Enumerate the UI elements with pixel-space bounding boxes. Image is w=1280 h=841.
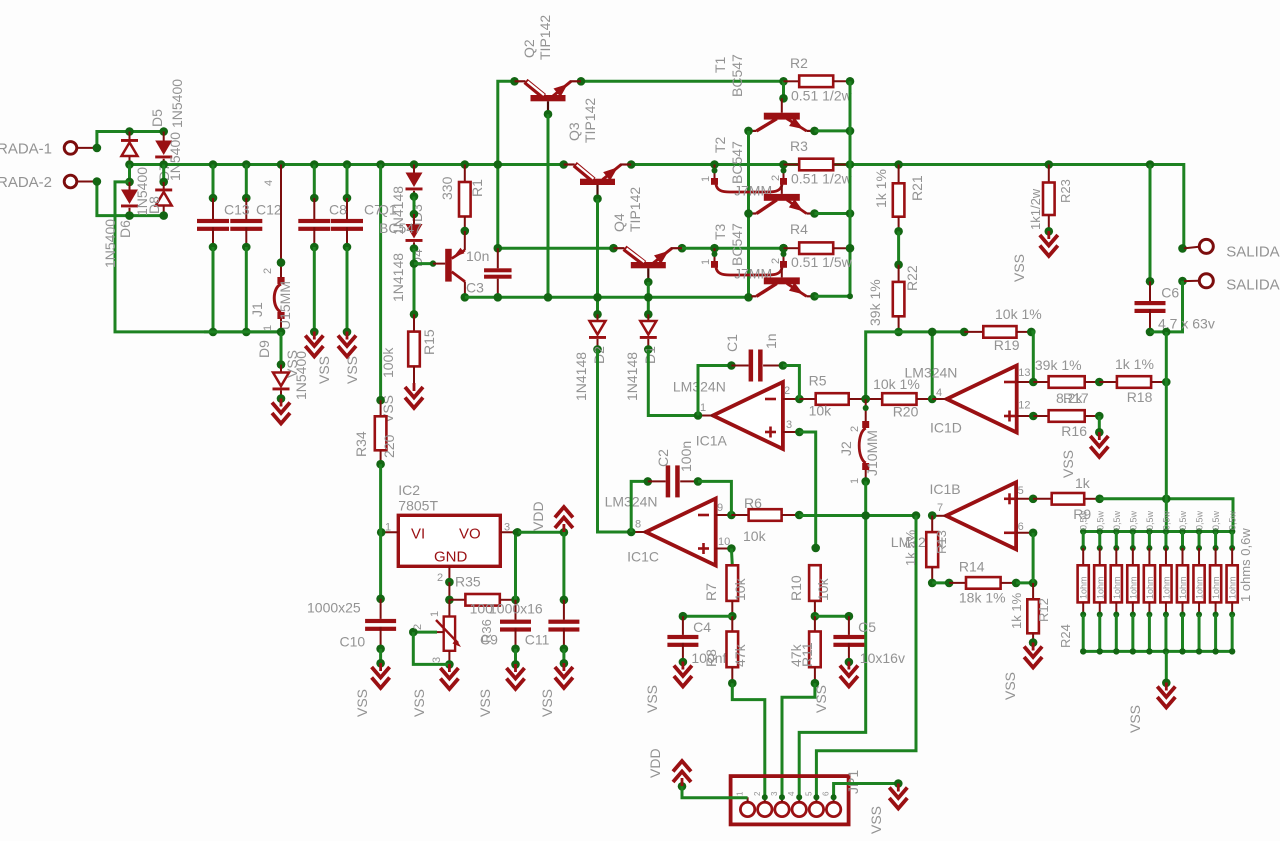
diode D6 1N5400 <box>102 182 138 268</box>
svg-text:R11: R11 <box>799 642 815 667</box>
svg-text:R13: R13 <box>934 530 949 554</box>
svg-text:VSS: VSS <box>477 689 493 717</box>
svg-text:R23: R23 <box>1058 179 1073 203</box>
svg-text:1ohm: 1ohm <box>1145 576 1155 599</box>
svg-text:R22: R22 <box>904 265 920 291</box>
wire R16 to VSS <box>1095 416 1104 437</box>
svg-text:C13: C13 <box>224 202 250 218</box>
svg-text:1N4148: 1N4148 <box>573 352 589 401</box>
capacitor C2 100n <box>631 441 731 532</box>
label C8 C7 <box>329 202 382 218</box>
wire D6 top rail to VSS bus <box>115 182 281 332</box>
svg-text:C4: C4 <box>693 619 711 635</box>
connector ENTRADA-2 <box>0 174 94 191</box>
svg-text:IC2: IC2 <box>398 482 420 498</box>
svg-text:VI: VI <box>411 526 425 543</box>
svg-text:1: 1 <box>700 259 712 265</box>
svg-text:9: 9 <box>717 502 723 514</box>
svg-text:Q2: Q2 <box>521 39 537 58</box>
svg-text:10x16v: 10x16v <box>860 650 905 666</box>
svg-text:C3: C3 <box>466 280 484 296</box>
svg-text:VSS: VSS <box>344 356 360 384</box>
svg-text:VSS: VSS <box>411 689 427 717</box>
svg-text:T3: T3 <box>712 223 728 240</box>
wire R6 output row <box>799 514 916 517</box>
svg-text:GND: GND <box>434 549 468 566</box>
svg-text:R35: R35 <box>455 573 481 589</box>
svg-text:JP1: JP1 <box>845 770 861 794</box>
wire IC1B output down to JP1 pin5 <box>816 516 916 798</box>
resistor R2 0.51 <box>784 55 855 104</box>
svg-text:IC1C: IC1C <box>627 548 659 564</box>
wire VSS bottom bus <box>204 330 281 333</box>
svg-text:0.51 1/2w: 0.51 1/2w <box>791 171 853 187</box>
svg-text:R12: R12 <box>1036 598 1051 622</box>
svg-text:ENTRADA-2: ENTRADA-2 <box>0 174 52 191</box>
wire Q4 emitter row <box>682 247 784 250</box>
svg-text:R10: R10 <box>788 575 804 601</box>
junction <box>744 127 819 136</box>
resistor R18 1k 1% <box>1099 356 1170 405</box>
capacitor C11 1000x16 <box>489 532 579 667</box>
ground VSS under C7 <box>338 332 360 385</box>
transistor T3 BC547 <box>712 223 815 296</box>
svg-text:5: 5 <box>804 791 813 796</box>
capacitor C5 10x16v <box>815 612 905 666</box>
diode D4 1N4148 <box>390 214 425 302</box>
svg-text:C12: C12 <box>256 202 282 218</box>
svg-text:1ohm: 1ohm <box>1178 576 1188 599</box>
ground VSS under R23 <box>1011 231 1058 282</box>
diode D9 1N5400 <box>256 332 309 403</box>
wire base drive line <box>465 296 749 299</box>
svg-text:13: 13 <box>1018 367 1030 379</box>
svg-text:2: 2 <box>437 572 443 584</box>
svg-text:R34: R34 <box>353 431 369 457</box>
svg-text:R5: R5 <box>809 373 827 389</box>
svg-text:1N5400: 1N5400 <box>102 219 118 268</box>
op-amp IC1D LM324N <box>905 364 1038 435</box>
wire J2 to R6 row and JP1 pin4 <box>799 481 870 797</box>
svg-text:2: 2 <box>262 268 274 274</box>
label C13 C12 <box>224 202 282 218</box>
resistor R6 10k <box>731 495 803 544</box>
svg-text:VSS: VSS <box>1060 450 1076 478</box>
svg-text:Q3: Q3 <box>566 122 582 141</box>
svg-text:1N5400: 1N5400 <box>293 351 309 400</box>
capacitor C3 10n <box>466 248 512 302</box>
op-amp IC1B LM324N <box>891 481 1038 550</box>
svg-text:47k: 47k <box>732 643 748 667</box>
wire IC1A plus input down <box>799 432 820 552</box>
svg-text:1: 1 <box>385 522 391 534</box>
svg-text:VSS: VSS <box>1002 672 1018 700</box>
wire R22 to R20 node <box>866 332 899 399</box>
svg-text:R15: R15 <box>421 329 437 355</box>
resistor R15 100k <box>380 314 437 384</box>
svg-text:3: 3 <box>504 522 510 534</box>
capacitor C8 <box>298 160 330 336</box>
wire D4 to R15 with Q1 base tap <box>410 249 419 319</box>
svg-text:VSS: VSS <box>316 356 332 384</box>
ground VSS under C11 <box>539 663 573 717</box>
resistor R17 39k 1% <box>1033 357 1103 406</box>
wire R11 to JP1 pin3 <box>782 683 815 797</box>
diode D3 1N4148 <box>390 160 425 235</box>
svg-text:1: 1 <box>700 176 712 182</box>
diode D2 1N4148 <box>573 314 607 401</box>
svg-text:1000x25: 1000x25 <box>307 600 361 616</box>
svg-text:1: 1 <box>736 791 745 796</box>
wire T collectors vertical <box>744 131 753 302</box>
jumper J2 J10MM <box>838 395 880 486</box>
svg-text:R17: R17 <box>1063 390 1089 406</box>
svg-text:3: 3 <box>431 657 443 663</box>
connector JP1 <box>731 770 861 825</box>
svg-text:2: 2 <box>412 624 424 630</box>
svg-text:1ohm: 1ohm <box>1112 576 1122 599</box>
svg-text:U15MM: U15MM <box>277 281 293 330</box>
svg-text:C5: C5 <box>858 619 876 635</box>
jumper J7MM row2 <box>700 160 787 198</box>
wire Q2 collector rail <box>494 81 515 248</box>
svg-text:D6: D6 <box>117 220 133 238</box>
svg-text:1N4148: 1N4148 <box>624 352 640 401</box>
ground VSS at JP1 <box>868 784 907 835</box>
diode D7 1N5400 <box>155 132 183 182</box>
svg-text:D1: D1 <box>642 346 658 364</box>
svg-text:100n: 100n <box>678 441 694 472</box>
resistor R14 18k 1% <box>932 558 1037 605</box>
svg-text:6: 6 <box>822 791 831 796</box>
wire T3 emitter to rail corner <box>815 81 854 299</box>
wire D2 to IC1C output <box>598 349 632 532</box>
svg-text:0,5w: 0,5w <box>1178 510 1188 530</box>
wire ENTRADA-2 down to bridge bottom rail <box>93 177 164 215</box>
transistor Q1 BC547 <box>378 202 469 302</box>
svg-text:T2: T2 <box>712 136 728 153</box>
wire Q2 emitter row <box>581 80 784 83</box>
ground VSS under C10 <box>354 663 390 717</box>
svg-text:6: 6 <box>1018 521 1024 533</box>
svg-text:8: 8 <box>635 519 641 531</box>
wire C6 bottom node <box>1150 328 1171 336</box>
wire Q4 base down <box>644 282 653 319</box>
svg-text:R14: R14 <box>959 558 985 574</box>
svg-text:4: 4 <box>263 180 275 186</box>
svg-text:12: 12 <box>1018 400 1030 412</box>
svg-text:R19: R19 <box>994 337 1020 353</box>
svg-text:J1: J1 <box>249 302 265 317</box>
junction <box>744 209 819 218</box>
transistor Q3 TIP142 <box>559 98 635 203</box>
svg-text:VSS: VSS <box>868 806 884 834</box>
svg-text:R6: R6 <box>744 495 762 511</box>
svg-text:1k: 1k <box>1075 475 1091 491</box>
svg-text:R1: R1 <box>469 179 485 197</box>
junction <box>93 127 168 152</box>
ground VSS under C8 <box>305 332 332 385</box>
svg-text:0,5w: 0,5w <box>1128 510 1138 530</box>
svg-text:1k 1%: 1k 1% <box>1115 356 1154 372</box>
svg-text:1k 1%: 1k 1% <box>873 169 889 208</box>
connector SALIDA-1 <box>1178 239 1279 260</box>
svg-text:10k: 10k <box>743 528 767 544</box>
voltage regulator IC2 7805T <box>377 482 522 586</box>
junction <box>277 328 286 337</box>
svg-text:4: 4 <box>787 791 796 796</box>
svg-text:330: 330 <box>439 176 455 200</box>
wire R22 to IC1D output node <box>899 330 933 333</box>
svg-text:1ohm: 1ohm <box>1095 576 1105 599</box>
capacitor C6 4.7x63v <box>1135 160 1215 336</box>
svg-text:IC1D: IC1D <box>930 419 962 435</box>
svg-text:J2: J2 <box>838 441 854 456</box>
ground VSS under D9 <box>272 399 290 424</box>
svg-text:R3: R3 <box>790 138 808 154</box>
svg-text:C10: C10 <box>340 634 366 650</box>
junction <box>762 794 820 800</box>
svg-text:D8: D8 <box>146 196 162 214</box>
wire IC1B minus to R14 node <box>1032 533 1035 583</box>
svg-text:2: 2 <box>849 426 861 432</box>
svg-text:2: 2 <box>784 385 790 397</box>
ground VSS under C9 <box>477 664 525 717</box>
resistor R1 330 <box>439 160 485 235</box>
svg-text:1N5400: 1N5400 <box>169 79 185 128</box>
wire SALIDA-2 down <box>1166 281 1182 332</box>
svg-text:0,5w: 0,5w <box>1112 510 1122 530</box>
op-amp IC1A LM324N <box>673 378 804 449</box>
wire R9 to bank node <box>1100 495 1233 532</box>
junction <box>125 211 168 220</box>
svg-text:1ohm: 1ohm <box>1128 576 1138 599</box>
resistor R23 1k 1/2w <box>1028 160 1073 235</box>
svg-text:0.51 1/2w: 0.51 1/2w <box>791 88 853 104</box>
ground VSS under bank <box>1127 683 1175 734</box>
svg-text:BC547: BC547 <box>379 220 422 236</box>
svg-text:IC1B: IC1B <box>930 481 961 497</box>
svg-text:R21: R21 <box>909 175 925 201</box>
svg-text:4: 4 <box>936 387 942 399</box>
svg-text:IC1A: IC1A <box>696 433 728 449</box>
svg-text:VSS: VSS <box>354 689 370 717</box>
capacitor C12 <box>230 160 262 336</box>
svg-text:1k 5%: 1k 5% <box>903 529 918 566</box>
svg-text:1k 1%: 1k 1% <box>1009 592 1024 629</box>
svg-text:LM324N: LM324N <box>905 364 958 380</box>
svg-text:C9: C9 <box>480 632 498 648</box>
svg-text:R20: R20 <box>893 404 919 420</box>
capacitor C10 1000x25 <box>307 599 396 668</box>
svg-text:1: 1 <box>849 478 861 484</box>
svg-text:Q1: Q1 <box>378 202 397 218</box>
capacitor C1 1n <box>698 333 799 415</box>
svg-text:TIP142: TIP142 <box>537 15 553 60</box>
svg-text:1 ohms 0,6w: 1 ohms 0,6w <box>1238 528 1253 602</box>
resistor R22 39k 1% <box>867 265 920 337</box>
svg-text:VDD: VDD <box>647 748 663 778</box>
svg-text:C11: C11 <box>525 632 550 648</box>
wire JP1 pin6 to VSS <box>831 779 903 800</box>
svg-text:3: 3 <box>770 791 779 796</box>
svg-text:2: 2 <box>770 258 782 264</box>
svg-text:TIP142: TIP142 <box>627 187 643 232</box>
svg-text:1: 1 <box>700 402 706 414</box>
wire Q3 base down <box>593 199 602 319</box>
capacitor C13 <box>197 160 229 336</box>
svg-text:1ohm: 1ohm <box>1079 576 1089 599</box>
resistor R35 100 <box>445 573 520 616</box>
transistor T2 BC547 <box>712 136 815 213</box>
junction <box>125 178 168 187</box>
ground VSS under C5 <box>813 662 858 714</box>
svg-text:0.51 1/5w: 0.51 1/5w <box>791 254 853 270</box>
svg-text:ENTRADA-1: ENTRADA-1 <box>0 141 52 158</box>
resistor bank R24 1 ohm x10 <box>1058 510 1253 654</box>
svg-text:39k 1%: 39k 1% <box>1035 357 1082 373</box>
wire Q2 base to drive line <box>544 114 553 301</box>
svg-text:D9: D9 <box>256 340 272 358</box>
svg-text:10k: 10k <box>815 577 831 601</box>
ground VSS under R16 <box>1060 432 1108 478</box>
svg-text:VDD: VDD <box>530 501 546 531</box>
svg-text:R7: R7 <box>703 583 719 601</box>
svg-text:VSS: VSS <box>644 685 660 713</box>
svg-text:BC547: BC547 <box>729 54 745 97</box>
wire bridge mid rail to bus <box>130 163 214 166</box>
svg-text:T1: T1 <box>712 56 728 73</box>
svg-text:BC547: BC547 <box>729 141 745 184</box>
wire VO to VDD node <box>517 528 568 537</box>
svg-text:220: 220 <box>381 434 397 458</box>
svg-text:0,5w: 0,5w <box>1211 510 1221 530</box>
svg-text:3: 3 <box>786 419 792 431</box>
wire main bus left segment <box>213 163 564 166</box>
wire R19 to IC1D minus <box>1031 332 1033 382</box>
wire main bus right segment <box>631 165 1184 249</box>
ground VSS under C4 <box>644 662 692 714</box>
svg-text:2: 2 <box>753 791 762 796</box>
wire ENTRADA-1 to bridge top rail <box>97 132 164 148</box>
wire T2 emitter to rail <box>815 209 855 218</box>
svg-text:C2: C2 <box>655 449 671 467</box>
svg-text:100k: 100k <box>380 347 396 378</box>
svg-text:2: 2 <box>770 175 782 181</box>
transistor Q2 TIP142 <box>510 15 585 119</box>
junction <box>125 160 168 169</box>
svg-text:1N5400: 1N5400 <box>167 132 183 181</box>
transistor Q4 TIP142 <box>609 187 686 287</box>
svg-text:SALIDA: SALIDA <box>1226 277 1279 294</box>
svg-text:10k: 10k <box>809 403 833 419</box>
wire C6 node down to bank <box>1165 332 1168 532</box>
svg-text:0,5w: 0,5w <box>1145 510 1155 530</box>
wire R34 to VI and C10 <box>376 464 385 603</box>
ground VSS under R15 <box>380 383 423 423</box>
jumper J7MM row3 <box>700 244 787 282</box>
wire D7-D8 link <box>162 165 165 182</box>
svg-text:VSS: VSS <box>539 689 555 717</box>
wire IC1D output up and over <box>928 328 969 399</box>
svg-text:7: 7 <box>937 502 943 514</box>
svg-text:R18: R18 <box>1127 389 1153 405</box>
svg-text:10: 10 <box>718 536 730 548</box>
ground VSS under R36 <box>411 664 458 717</box>
capacitor C7 <box>331 160 363 336</box>
supply VDD at regulator <box>530 501 573 532</box>
resistor R19 10k 1% <box>964 306 1042 353</box>
svg-text:10n: 10n <box>466 248 489 264</box>
wire Q4 collector row <box>494 244 614 253</box>
diode D5 1N5400 <box>121 79 185 165</box>
resistor R4 0.51 <box>779 221 854 270</box>
transistor T1 BC547 <box>712 54 815 131</box>
svg-text:1ohm: 1ohm <box>1228 576 1238 599</box>
svg-text:R8: R8 <box>703 649 719 667</box>
svg-text:D5: D5 <box>149 109 165 127</box>
svg-text:1: 1 <box>429 611 441 617</box>
svg-text:39k 1%: 39k 1% <box>867 279 883 326</box>
svg-text:1ohm: 1ohm <box>1211 576 1221 599</box>
svg-text:1n: 1n <box>763 333 779 349</box>
svg-text:0,5w: 0,5w <box>1095 510 1105 530</box>
svg-text:10k: 10k <box>732 577 748 601</box>
svg-text:R4: R4 <box>790 221 808 237</box>
svg-text:0,5w: 0,5w <box>1195 510 1205 530</box>
supply VDD at JP1 <box>647 748 748 797</box>
wire bank to VSS <box>1162 651 1171 687</box>
svg-text:10k 1%: 10k 1% <box>995 306 1042 322</box>
svg-text:0,5w: 0,5w <box>1161 510 1171 530</box>
op-amp IC1C LM324N <box>605 494 736 566</box>
svg-text:J10MM: J10MM <box>864 430 880 476</box>
svg-text:R24: R24 <box>1058 624 1073 648</box>
svg-text:TIP142: TIP142 <box>582 98 598 143</box>
svg-text:VO: VO <box>459 526 481 543</box>
svg-text:Q4: Q4 <box>611 213 627 232</box>
wire <box>410 197 419 219</box>
connector SALIDA-2 <box>1178 274 1279 294</box>
capacitor C4 100nf <box>667 612 732 666</box>
svg-text:VSS: VSS <box>1011 254 1027 282</box>
svg-text:18k 1%: 18k 1% <box>959 589 1006 605</box>
capacitor C9 100n <box>480 529 531 668</box>
svg-text:1k1/2w: 1k1/2w <box>1028 188 1043 230</box>
resistor R12 1k 1% <box>1009 583 1051 647</box>
diode D1 1N4148 <box>624 314 658 401</box>
svg-text:C6: C6 <box>1161 285 1179 301</box>
resistor R20 10k 1% <box>866 376 937 420</box>
ground VSS under R12 <box>1002 643 1042 701</box>
svg-text:SALIDA: SALIDA <box>1226 243 1279 260</box>
resistor R5 10k <box>799 373 870 419</box>
svg-text:1N4148: 1N4148 <box>390 253 406 302</box>
diode D8 1N5400 <box>134 167 172 216</box>
svg-text:VSS: VSS <box>1127 705 1143 733</box>
resistor R3 0.51 <box>779 138 854 187</box>
wire D5-D6 link <box>128 165 131 182</box>
jumper J1 U15MM <box>249 160 293 332</box>
svg-text:C8: C8 <box>329 202 347 218</box>
svg-text:C1: C1 <box>724 334 740 352</box>
wire <box>894 231 903 269</box>
svg-text:1: 1 <box>262 325 274 331</box>
svg-text:1000x16: 1000x16 <box>489 600 543 616</box>
resistor R11 47k <box>788 616 821 687</box>
resistor R7 10k <box>703 565 748 620</box>
connector ENTRADA-1 <box>0 141 94 158</box>
